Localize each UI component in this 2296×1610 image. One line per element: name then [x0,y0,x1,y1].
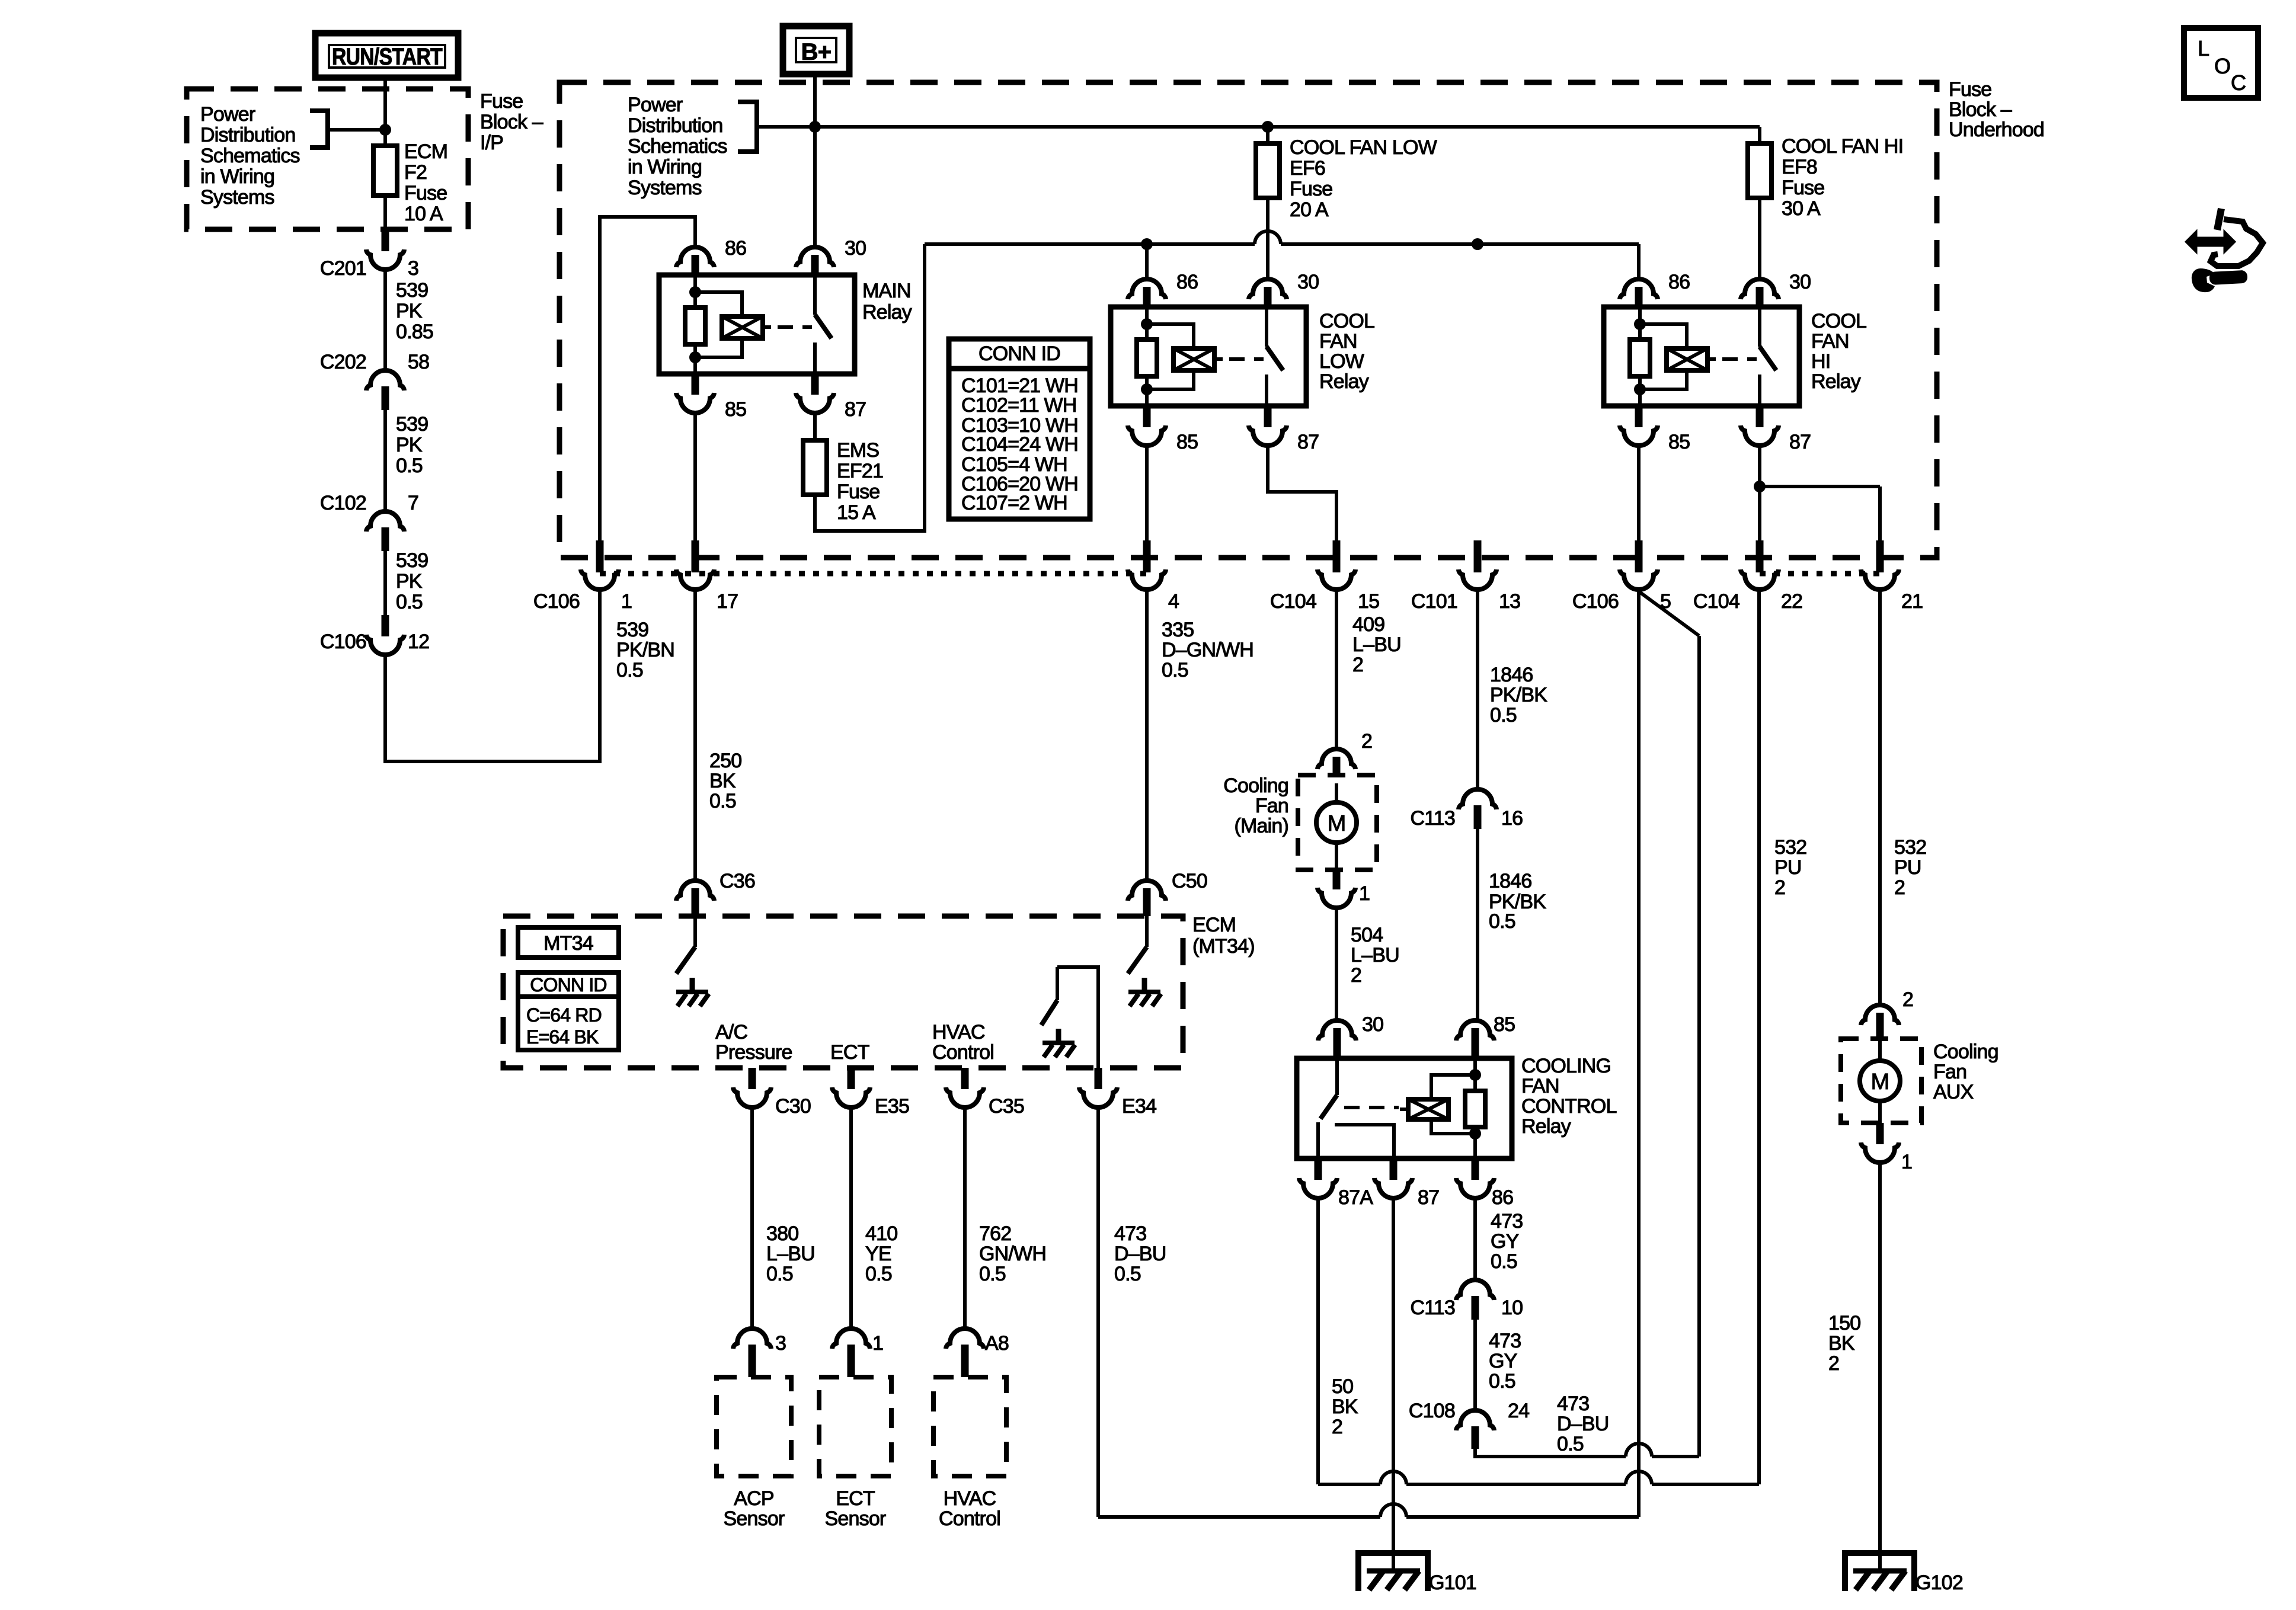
svg-text:50: 50 [1332,1375,1353,1398]
svg-text:HI: HI [1811,350,1830,373]
connector C104 pin 22 (fuse block exit) [1693,540,1802,613]
svg-text:0.5: 0.5 [865,1263,892,1285]
svg-text:Cooling: Cooling [1223,774,1288,797]
svg-text:C36: C36 [720,870,755,892]
note power distribution schematics (underhood) [628,94,727,199]
connector C201 pin 3 [320,230,418,280]
svg-text:473: 473 [1114,1222,1146,1245]
svg-text:CONTROL: CONTROL [1521,1095,1617,1118]
svg-text:Fuse: Fuse [1949,78,1991,101]
svg-text:F2: F2 [404,161,427,184]
wire main relay 85 to pin 17 [693,413,697,543]
svg-text:PU: PU [1894,856,1921,879]
svg-text:4: 4 [1168,590,1179,613]
dotted connector line C104 22-21 [1760,571,1880,577]
table CONN ID ECM [518,972,619,1050]
node ignition feed junction [379,124,391,136]
wire 250 BK 0.5 pin17 to C36 [695,590,741,883]
table CONN ID underhood [949,339,1090,519]
svg-text:22: 22 [1781,590,1802,613]
wire EMS fuse to relay bus [815,244,925,531]
pin 85 main relay [676,373,746,421]
fuse ECM F2 10A [373,146,397,196]
pin 1 cooling fan main [1318,843,1370,908]
pin 2 cooling fan main [1318,730,1372,802]
svg-text:Power: Power [628,94,683,116]
node B+ at EF6 fuse [1262,121,1274,133]
ground G102 [1845,1553,1963,1594]
label ECT [830,1041,869,1064]
svg-text:87: 87 [1789,431,1811,453]
svg-text:539: 539 [396,279,428,302]
svg-text:C106: C106 [533,590,580,613]
pin 30 cool fan hi relay [1741,271,1811,307]
svg-text:0.5: 0.5 [1491,1250,1517,1273]
svg-text:COOL: COOL [1319,310,1374,332]
component HVAC Control box [933,1377,1006,1530]
svg-text:E34: E34 [1122,1095,1156,1118]
wire 410 YE 0.5 E35 to ECT sensor [851,1108,897,1329]
connector C113 pin 10 [1410,1280,1523,1320]
svg-text:in Wiring: in Wiring [628,156,702,178]
connector C106 pin 4 (fuse block exit) [1128,540,1179,613]
relay COOL FAN HI Relay [1604,307,1799,406]
svg-text:Fuse: Fuse [404,182,447,204]
fuse EMS EF21 15A [803,440,827,495]
ground G101 [1358,1553,1476,1594]
svg-text:Fuse: Fuse [1290,178,1332,200]
svg-text:L–BU: L–BU [766,1243,815,1265]
svg-text:C102: C102 [320,492,366,514]
svg-text:A/C: A/C [715,1021,748,1044]
svg-text:1846: 1846 [1490,664,1533,686]
svg-text:2: 2 [1902,988,1913,1011]
wire 539 PK 0.5 (C102-C106) [385,549,428,616]
svg-text:CONN ID: CONN ID [978,343,1060,365]
icon service info arrow wrench [2186,209,2263,292]
svg-text:30: 30 [1297,271,1319,293]
svg-text:GY: GY [1489,1350,1517,1372]
svg-text:86: 86 [1176,271,1198,293]
svg-text:87A: 87A [1338,1186,1373,1209]
connector C50 ECM [1128,870,1207,916]
svg-text:473: 473 [1557,1393,1589,1415]
svg-text:C=64 RD: C=64 RD [526,1004,602,1026]
wire main relay 87 to EMS fuse [813,413,817,440]
svg-text:Control: Control [939,1507,1000,1530]
pin 2 cooling fan aux [1861,988,1913,1061]
svg-text:Fuse: Fuse [480,90,523,113]
pin A8 HVAC control [946,1329,1009,1377]
svg-text:LOW: LOW [1319,350,1364,373]
bracket to power distribution (underhood) [738,100,757,154]
pin 30 control relay [1318,1013,1383,1058]
fuse block underhood dashed box [559,82,1937,558]
wire 762 GN/WH 0.5 C35 to HVAC control [965,1108,1046,1329]
svg-text:Sensor: Sensor [825,1507,886,1530]
svg-text:2: 2 [1828,1352,1839,1375]
svg-text:ACP: ACP [734,1487,774,1510]
svg-text:C106: C106 [1572,590,1619,613]
note power distribution schematics (I/P) [200,103,300,209]
label COOL FAN HI EF8 Fuse 30 A [1782,135,1903,220]
svg-text:85: 85 [725,398,746,421]
svg-text:13: 13 [1499,590,1520,613]
connector C106 pin 21 (fuse block exit) [1861,540,1923,613]
relay COOLING FAN CONTROL Relay [1297,1058,1512,1158]
svg-text:G102: G102 [1916,1571,1963,1594]
svg-text:532: 532 [1774,836,1806,859]
svg-text:10: 10 [1501,1297,1523,1319]
svg-text:30: 30 [1362,1013,1383,1036]
svg-text:Schematics: Schematics [628,135,727,158]
wire 539 PK 0.5 (C202-C102) [385,410,428,512]
wire 532 PU 2 pin21 to aux fan [1880,590,1926,1005]
wire EF8 to cool fan hi relay 30 [1758,198,1761,279]
svg-text:85: 85 [1176,431,1198,453]
svg-text:0.5: 0.5 [616,659,643,681]
svg-text:COOL FAN LOW: COOL FAN LOW [1290,136,1437,159]
svg-text:2: 2 [1332,1416,1342,1438]
svg-text:16: 16 [1501,807,1523,830]
svg-text:(Main): (Main) [1234,815,1288,837]
wire 380 L-BU 0.5 C30 to ACP sensor [752,1108,815,1329]
svg-text:HVAC: HVAC [944,1487,996,1510]
node bus to C101-13 [1472,238,1483,250]
svg-text:Systems: Systems [628,177,702,199]
battery feed tag B+ [783,26,849,74]
pin 86 control relay [1456,1158,1513,1209]
pin 87 main relay [796,373,866,421]
svg-text:539: 539 [396,413,428,436]
svg-text:85: 85 [1668,431,1690,453]
svg-text:C104: C104 [1270,590,1316,613]
svg-text:86: 86 [725,237,746,260]
svg-text:Block –: Block – [1949,98,2012,121]
switch ECM C36 driver [676,916,709,1006]
svg-text:C104: C104 [1693,590,1739,613]
svg-text:504: 504 [1351,924,1383,946]
svg-text:A8: A8 [985,1332,1009,1355]
svg-text:24: 24 [1508,1400,1529,1422]
pin 1 cooling fan aux [1861,1101,1912,1173]
label EMS EF21 Fuse 15 A [837,439,883,524]
svg-text:Block –: Block – [480,111,543,133]
svg-text:0.5: 0.5 [979,1263,1006,1285]
svg-text:EF6: EF6 [1290,157,1325,180]
svg-text:0.5: 0.5 [1489,1370,1515,1393]
svg-text:2: 2 [1352,654,1363,676]
wire cool fan hi 87 branch [1754,446,1880,543]
svg-text:0.5: 0.5 [1490,704,1517,726]
connector C106 pin 17 (fuse block exit) [676,540,738,613]
svg-text:3: 3 [775,1332,786,1355]
svg-text:Relay: Relay [1319,370,1369,393]
wire cool fan hi 85 to C106-5 [1637,446,1641,543]
svg-text:BK: BK [1332,1395,1358,1418]
svg-text:Distribution: Distribution [628,114,722,137]
svg-text:O: O [2214,54,2230,78]
wire relay 87 to G101 [1392,1198,1395,1571]
svg-text:473: 473 [1491,1210,1523,1233]
wire 335 D-GN/WH 0.5 pin4 to C50 [1147,590,1253,883]
svg-text:Fan: Fan [1933,1061,1966,1083]
svg-text:250: 250 [709,750,741,772]
wire 504 L-BU 2 motor to control relay 30 [1336,908,1399,1022]
pin C30 ECM [733,1068,811,1118]
svg-text:C202: C202 [320,351,366,373]
svg-text:COOL: COOL [1811,310,1866,332]
svg-text:532: 532 [1894,836,1926,859]
svg-text:Sensor: Sensor [724,1507,785,1530]
svg-text:C106: C106 [320,630,366,653]
svg-text:C30: C30 [775,1095,811,1118]
ignition feed tag RUN/START [315,33,458,78]
connector C36 ECM [676,870,755,916]
label A/C Pressure [715,1021,792,1064]
svg-text:539: 539 [616,619,648,641]
wire main relay 86 to C106-1 [600,217,695,543]
component ACP Sensor box [717,1377,791,1530]
wire 473 GY 0.5 C113-10 to C108-24 [1475,1320,1521,1411]
bracket to power distribution (I/P) [310,108,385,150]
connector C104 pin 15 (fuse block exit) [1270,540,1379,613]
svg-text:0.85: 0.85 [396,321,433,343]
svg-text:2: 2 [1774,876,1785,899]
connector C101 pin 13 (fuse block exit) [1411,540,1520,613]
wire relay feed bus 412 [925,231,1639,244]
wire 473 GY 0.5 relay 86 to C113-10 [1475,1198,1523,1281]
svg-text:PU: PU [1774,856,1802,879]
svg-text:PK: PK [396,434,423,456]
pin 87A control relay [1299,1158,1373,1209]
wire 1846 PK/BK 0.5 C113-16 to control relay 85 [1478,829,1546,1022]
svg-text:87: 87 [1418,1186,1439,1209]
svg-text:CONN ID: CONN ID [530,974,607,996]
label ECM (MT34) [1192,914,1255,958]
svg-text:2: 2 [1351,964,1361,987]
pin E35 ECM [832,1068,909,1118]
svg-text:Relay: Relay [1811,370,1861,393]
svg-text:150: 150 [1828,1312,1860,1334]
wire 1846 PK/BK 0.5 C101-13 to C113-16 [1478,590,1547,790]
svg-text:C104=24 WH: C104=24 WH [961,433,1078,456]
svg-text:539: 539 [396,549,428,572]
svg-text:0.5: 0.5 [396,454,423,477]
svg-text:MAIN: MAIN [862,280,911,302]
label 532 PU 2 (pin22) [1774,836,1806,899]
relay MAIN Relay [659,275,855,374]
svg-text:409: 409 [1352,613,1384,636]
svg-text:Schematics: Schematics [200,145,300,167]
wire B+ down to main relay 30 [813,74,817,248]
svg-text:PK/BN: PK/BN [616,639,674,661]
dotted connector line C106 [600,571,1147,577]
svg-text:I/P: I/P [480,132,503,154]
pin 30 main relay [796,237,866,275]
label COOLING FAN CONTROL Relay [1521,1055,1617,1138]
svg-text:PK: PK [396,300,423,322]
svg-text:Fan: Fan [1255,795,1288,817]
svg-text:M: M [1328,811,1346,836]
switch ECM C50 driver [1128,916,1161,1006]
svg-text:C201: C201 [320,257,366,280]
svg-text:COOL FAN HI: COOL FAN HI [1782,135,1903,158]
svg-text:ECT: ECT [836,1487,875,1510]
svg-text:FAN: FAN [1811,330,1849,353]
svg-text:0.5: 0.5 [766,1263,793,1285]
motor Cooling Fan (Main) [1298,775,1377,870]
svg-text:AUX: AUX [1933,1081,1974,1103]
label COOL FAN LOW EF6 Fuse 20 A [1290,136,1437,221]
svg-text:E=64 BK: E=64 BK [526,1026,599,1048]
svg-text:87: 87 [1297,431,1319,453]
svg-text:L–BU: L–BU [1351,944,1399,966]
svg-text:Systems: Systems [200,186,274,209]
pin 85 control relay [1456,1013,1515,1058]
wire 473 D-BU 0.5 E34 to ground bus [1098,1108,1166,1517]
connector C106 pin 1 (fuse block exit) [533,540,632,613]
svg-text:Fuse: Fuse [837,481,880,503]
svg-text:3: 3 [408,257,418,280]
svg-text:D–GN/WH: D–GN/WH [1162,639,1253,661]
pin 3 ACP sensor [733,1329,786,1377]
wire B+ feed bus [757,127,1760,143]
wire cool fan low 87 to C104-15 [1268,446,1336,543]
svg-text:Fuse: Fuse [1782,177,1824,199]
pin 87 cool fan low relay [1249,406,1319,453]
svg-text:1: 1 [1901,1151,1912,1173]
fuse COOL FAN LOW EF6 20A [1256,127,1280,198]
svg-text:15: 15 [1358,590,1379,613]
svg-text:M: M [1871,1070,1889,1094]
svg-text:12: 12 [408,630,429,653]
wire EF6 to cool fan low relay 30 [1266,198,1269,279]
svg-text:30: 30 [845,237,866,260]
fuse block I/P dashed box [187,89,468,229]
svg-text:Relay: Relay [862,301,912,324]
svg-text:Control: Control [932,1041,994,1064]
label COOL FAN LOW Relay [1319,310,1374,393]
svg-text:0.5: 0.5 [1489,910,1515,933]
svg-text:L–BU: L–BU [1352,633,1401,656]
wire 150 BK 2 aux fan to G102 [1828,1163,1880,1571]
wire C108-24 to cool fan hi coil node [1475,591,1699,1457]
connector C106 pin 12 [320,615,429,655]
relay COOL FAN LOW Relay [1111,307,1306,406]
svg-text:335: 335 [1162,619,1194,641]
svg-text:86: 86 [1668,271,1690,293]
svg-text:Relay: Relay [1521,1115,1571,1138]
svg-text:0.5: 0.5 [1162,659,1188,681]
svg-text:HVAC: HVAC [932,1021,985,1044]
label Fuse Block I/P [480,90,543,154]
wire fuse F2 to C201 [383,196,387,232]
svg-text:D–BU: D–BU [1557,1413,1609,1435]
svg-text:20 A: 20 A [1290,199,1329,221]
connector C102 pin 7 [320,492,418,551]
label Cooling Fan (Main) [1223,774,1288,837]
component ECT Sensor box [819,1377,891,1530]
pin 86 cool fan low relay [1128,244,1198,307]
svg-text:C107=2 WH: C107=2 WH [961,492,1067,514]
svg-text:D–BU: D–BU [1114,1243,1166,1265]
svg-text:BK: BK [1828,1332,1855,1355]
svg-text:GN/WH: GN/WH [979,1243,1046,1265]
svg-text:1846: 1846 [1489,870,1531,892]
module ECM dashed box [503,916,1183,1068]
svg-text:Pressure: Pressure [715,1041,792,1064]
node B+ at main relay [809,121,821,133]
svg-text:(MT34): (MT34) [1192,935,1255,958]
svg-text:21: 21 [1901,590,1923,613]
svg-text:ECM: ECM [404,140,447,163]
svg-text:COOLING: COOLING [1521,1055,1611,1077]
svg-text:MT34: MT34 [543,932,593,955]
svg-text:Distribution: Distribution [200,124,295,146]
wire C106-12 to C106-1 [385,590,600,761]
pin C35 ECM [946,1068,1024,1118]
label 473 D-BU 0.5 (C108 side) [1557,1393,1609,1455]
svg-text:1: 1 [1359,882,1370,905]
label COOL FAN HI Relay [1811,310,1866,393]
svg-text:762: 762 [979,1222,1011,1245]
svg-text:BK: BK [709,770,736,792]
wire 409 L-BU 2 pin15 to cooling fan main [1336,590,1401,749]
tag LOC [2184,28,2258,98]
svg-text:EMS: EMS [837,439,879,462]
wire 50 BK 2 relay 87A [1318,1198,1358,1484]
svg-text:Underhood: Underhood [1949,119,2044,141]
svg-text:0.5: 0.5 [1114,1263,1141,1285]
svg-text:ECM: ECM [1192,914,1236,936]
connector C106 pin 5 (fuse block exit) [1572,540,1671,613]
pin 85 cool fan hi relay [1620,406,1690,453]
pin 85 cool fan low relay [1128,406,1198,453]
svg-text:15 A: 15 A [837,501,876,524]
svg-text:85: 85 [1494,1013,1515,1036]
pin 1 ECT sensor [832,1329,883,1377]
svg-text:0.5: 0.5 [709,790,736,812]
svg-text:30: 30 [1789,271,1811,293]
wire 87A bus to C104-22 [1318,590,1759,1484]
pin 30 cool fan low relay [1249,271,1319,307]
label Fuse Block Underhood [1949,78,2044,141]
connector C108 pin 24 [1409,1400,1529,1449]
motor Cooling Fan AUX [1841,1039,1921,1123]
svg-text:380: 380 [766,1222,798,1245]
svg-text:EF21: EF21 [837,460,883,482]
svg-text:1: 1 [872,1332,883,1355]
switch ECM E34 driver [1041,967,1098,1068]
svg-text:17: 17 [717,590,738,613]
pin 87 cool fan hi relay [1741,406,1811,453]
fuse COOL FAN HI EF8 30A [1748,143,1771,198]
svg-text:PK/BK: PK/BK [1490,684,1547,706]
label 539 PK/BN 0.5 [616,619,674,681]
svg-text:C35: C35 [989,1095,1024,1118]
svg-text:58: 58 [408,351,429,373]
svg-text:YE: YE [865,1243,891,1265]
svg-text:10 A: 10 A [404,203,443,225]
wire 539 PK 0.85 [385,270,433,372]
connector C113 pin 16 [1410,789,1523,830]
svg-text:L: L [2198,36,2209,60]
pin E34 ECM [1079,1068,1156,1118]
svg-text:410: 410 [865,1222,897,1245]
svg-text:0.5: 0.5 [396,591,423,613]
svg-text:1: 1 [621,590,632,613]
